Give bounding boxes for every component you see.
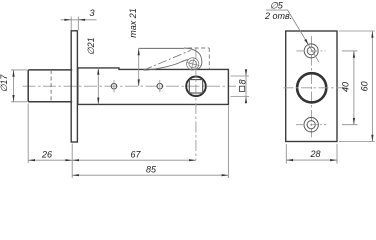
bolt cylinder O17 [28,70,72,102]
svg-text:max 21: max 21 [128,8,138,38]
svg-text:85: 85 [146,164,157,174]
dimension O17 (bolt diameter) [11,70,27,102]
svg-text:40: 40 [340,82,350,92]
faceplate vertical centerline [311,36,313,137]
body hole 1 center tick [113,80,115,92]
main horizontal centerline [23,85,237,87]
lower hole h-centerline [296,124,327,126]
cam pivot cross [185,56,201,72]
svg-text:67: 67 [130,149,141,159]
svg-text:∅17: ∅17 [0,74,9,93]
dimension 40 [342,51,358,125]
svg-text:∅21: ∅21 [86,37,96,55]
lower screw hole O5 [304,118,318,132]
spindle square hole 8 [189,80,202,93]
hidden line in cylinder [50,70,52,102]
spindle boss circle [186,77,206,97]
dimension 67 [72,159,196,161]
dimension max 21 (cam swing) [138,48,140,86]
upper hole h-centerline [297,50,326,52]
dimension 60 [339,31,375,142]
big circle h-centerline [284,87,346,89]
svg-text:60: 60 [359,81,369,91]
cam lower-left edge [145,60,189,71]
cam top edge [139,47,184,49]
upper screw hole O5 [304,44,318,58]
dimension O21 (body diameter) [97,68,99,105]
dim text square8 [237,79,247,91]
cam axis dash-dot diagonal [144,50,191,70]
faceplate side view [71,31,77,142]
faceplate front [286,31,337,142]
dimension 85 [72,174,228,176]
dimension 28 [286,144,337,164]
svg-text:∅5: ∅5 [270,0,284,10]
dimension 26 [28,159,72,161]
svg-text:3: 3 [89,8,95,18]
bottom extension lines [28,104,228,179]
svg-text:8: 8 [237,79,247,84]
dimension square 8 [231,69,250,104]
leader O5 2 holes [266,10,319,62]
lock body O21 [78,68,229,105]
svg-text:26: 26 [41,149,52,159]
cam phantom rest position (dashed) [188,48,209,69]
cam pivot pin [187,58,199,70]
spindle vertical centerline [195,48,197,161]
body hole 1 [111,83,117,89]
bolt hole big circle [297,73,326,102]
cam nose outline [184,48,202,69]
dimension 3 (flange thickness) [61,17,97,31]
body hole 2 center tick [159,80,161,92]
body hole 2 [157,83,163,89]
svg-text:28: 28 [309,149,320,159]
svg-text:2 отв.: 2 отв. [264,11,292,21]
